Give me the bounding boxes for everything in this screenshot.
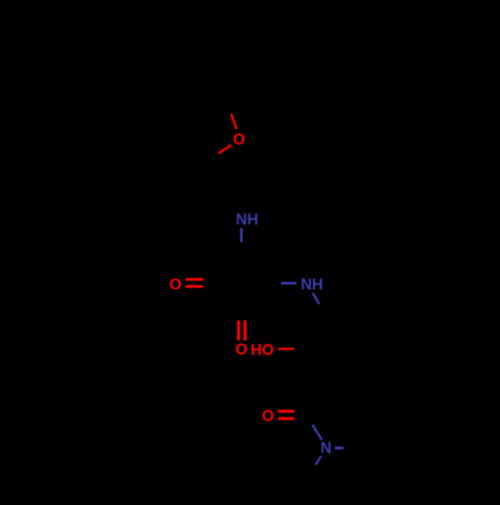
bond: C-NH (right, blue half horizontal) xyxy=(281,282,297,285)
bond: NH-CH2 (blue half, diagonal down-right) xyxy=(313,293,320,304)
bond: N-CH3 (blue half, down-left) xyxy=(316,456,322,465)
svg-text:O: O xyxy=(262,408,274,425)
bond: furan C5-O (upper half, red) xyxy=(231,114,236,130)
bond: N-C1 (blue half, vertical) xyxy=(240,228,243,242)
bond: N-CH3 (blue half, right) xyxy=(335,447,344,450)
svg-text:O: O xyxy=(235,341,247,358)
svg-text:O: O xyxy=(169,277,181,294)
bond: C=O double bond (bottom, red halves) xyxy=(278,410,294,413)
svg-text:NH: NH xyxy=(236,211,258,228)
bond: O-C (red half, right of HO) xyxy=(278,348,294,350)
bond: furan O-C2 (red half) xyxy=(219,145,232,154)
svg-text:N: N xyxy=(320,440,331,457)
svg-text:NH: NH xyxy=(301,276,323,293)
bond: C(=O)-N (blue half, diagonal) xyxy=(312,425,322,440)
svg-text:O: O xyxy=(233,131,245,148)
svg-text:HO: HO xyxy=(251,342,274,359)
bond: C=O double bond (left, red halves) xyxy=(186,278,204,281)
bond: C=O double bond (vertical, red halves) xyxy=(237,320,240,340)
